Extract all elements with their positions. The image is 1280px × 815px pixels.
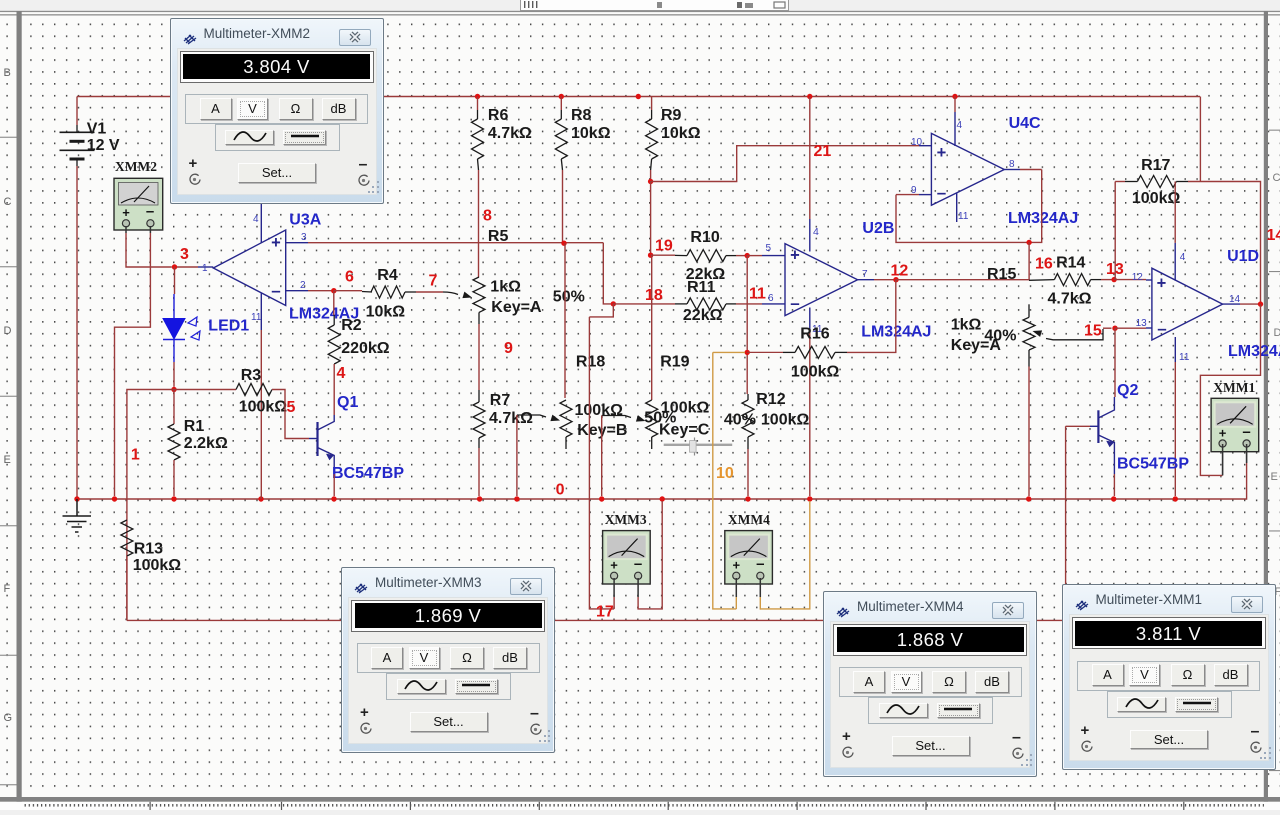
- wire R9 bottom: [650, 170, 652, 182]
- svg-text:100kΩ: 100kΩ: [133, 557, 182, 574]
- svg-text:B: B: [4, 67, 11, 79]
- node 6: [331, 288, 336, 293]
- wire XMM4 minus to ground bus: [760, 501, 810, 609]
- junction top bus / R6: [475, 94, 480, 99]
- svg-text:Q1: Q1: [337, 394, 358, 411]
- pot R19 bottom stub: [651, 437, 653, 449]
- svg-text:R17: R17: [1141, 157, 1170, 174]
- pin stub U3A pin 11: [260, 293, 262, 331]
- junction top bus near R9: [636, 94, 641, 99]
- node 14: [1258, 301, 1263, 306]
- svg-text:100kΩ: 100kΩ: [239, 399, 288, 416]
- svg-text:U2B: U2B: [862, 220, 894, 237]
- battery V1: [60, 125, 95, 166]
- wire U2B pin11 to ground bus: [809, 330, 811, 496]
- resistor R7: [473, 402, 485, 438]
- svg-text:1kΩ: 1kΩ: [490, 279, 521, 296]
- junction ground bus / R15 bottom: [1026, 496, 1031, 501]
- svg-text:C: C: [4, 196, 12, 208]
- svg-text:+: +: [122, 205, 130, 220]
- wire net 12 to R14 row: [896, 279, 1029, 281]
- wire U1D pin11 to ground bus: [1174, 362, 1176, 496]
- resistor R9: [646, 119, 658, 159]
- svg-text:E: E: [4, 454, 11, 466]
- junction ground bus / Q1 emitter: [331, 496, 336, 501]
- transistor Q1: [309, 415, 334, 474]
- junction ground bus / R12: [745, 496, 750, 501]
- svg-text:1: 1: [131, 446, 140, 463]
- wire net to R5/R8 column: [308, 242, 603, 244]
- wire node3 to U3A output: [177, 266, 198, 268]
- svg-text:R11: R11: [687, 279, 716, 296]
- svg-text:6: 6: [768, 293, 774, 304]
- svg-text:R9: R9: [661, 107, 682, 124]
- wire LED1 cathode to node 1: [173, 362, 175, 387]
- wire XMM1 plus terminal stub: [1222, 450, 1224, 475]
- wire U4C pin9: [896, 194, 919, 196]
- wire R12 to ground bus: [747, 449, 749, 496]
- pin stub U3A pin 3: [286, 242, 308, 244]
- pin stub U4C pin 4: [954, 112, 956, 146]
- wire net 17 to XMM3 plus: [589, 317, 614, 609]
- junction top bus / R8: [559, 94, 564, 99]
- resistor R13: [121, 520, 133, 556]
- svg-text:12 V: 12 V: [87, 137, 120, 154]
- svg-text:14: 14: [1267, 227, 1280, 244]
- wiper lead R15: [1046, 329, 1103, 340]
- svg-text:–: –: [1242, 423, 1250, 440]
- wire U2B pin4 riser: [809, 97, 811, 220]
- op-amp U2B: [785, 244, 858, 316]
- wire R8 top lead: [560, 97, 562, 111]
- svg-text:XMM4: XMM4: [728, 512, 770, 527]
- svg-text:11: 11: [749, 286, 766, 303]
- pin stub U3A pin 1: [198, 266, 213, 268]
- svg-text:LED1: LED1: [208, 317, 249, 334]
- svg-text:–: –: [756, 556, 764, 573]
- ground: [63, 499, 92, 532]
- wire U1D output to node 14: [1240, 303, 1261, 305]
- resistor R10: [687, 250, 726, 262]
- wire node21 down to node 19: [650, 182, 652, 256]
- wire net 21 to U4C pin10: [651, 146, 919, 182]
- multimeter icon XMM1: [1211, 398, 1259, 451]
- wire U4C pin4 riser: [954, 97, 956, 113]
- svg-text:7: 7: [429, 272, 438, 289]
- svg-text:11: 11: [251, 312, 262, 323]
- wire XMM4 terminal stubs: [735, 578, 737, 597]
- wire net 9 R5 to R7: [478, 324, 480, 390]
- junction ground bus / R7: [477, 496, 482, 501]
- svg-text:–: –: [937, 183, 946, 202]
- svg-text:U3A: U3A: [289, 212, 321, 229]
- node 21 junction: [648, 179, 653, 184]
- pin stub U2B pin 11: [809, 308, 811, 331]
- instrument panel Multimeter-XMM2: [170, 18, 384, 204]
- instrument panel Multimeter-XMM4: [823, 591, 1037, 777]
- node 13: [1111, 277, 1116, 282]
- multimeter icon XMM4: [725, 531, 773, 584]
- svg-text:1: 1: [202, 263, 208, 274]
- pin stub U1D pin 14: [1223, 303, 1240, 305]
- pin stub U2B pin 6: [762, 303, 785, 305]
- wire XMM3 plus lead: [613, 597, 615, 609]
- wire battery top lead: [76, 97, 78, 126]
- wire R7 to ground bus: [478, 448, 480, 496]
- junction top bus / U4C pin4 riser: [952, 94, 957, 99]
- pin stub U1D pin 11: [1174, 337, 1176, 362]
- svg-text:11: 11: [1179, 352, 1190, 363]
- svg-text:16: 16: [1035, 256, 1053, 273]
- svg-text:15: 15: [1084, 322, 1102, 339]
- svg-text:R3: R3: [241, 367, 262, 384]
- wire node13 to U1D pin12: [1114, 279, 1146, 281]
- wire U1D pin4 riser: [1174, 182, 1176, 243]
- svg-text:LM324AJ: LM324AJ: [1008, 210, 1078, 227]
- wire R19 wiper to ground bus: [601, 416, 603, 497]
- svg-text:R14: R14: [1056, 255, 1085, 272]
- svg-text:R10: R10: [690, 229, 719, 246]
- svg-text:F: F: [4, 583, 11, 595]
- multimeter icon XMM2: [114, 178, 163, 230]
- junction ground bus / U3A pin11: [258, 496, 263, 501]
- wire net 18 drop: [603, 243, 613, 304]
- wire XMM2 plus to node 3: [126, 233, 172, 267]
- junction ground bus / Q2 emitter: [1111, 496, 1116, 501]
- svg-text:10kΩ: 10kΩ: [661, 125, 701, 142]
- junction ground bus / XMM3 minus: [660, 496, 665, 501]
- svg-text:U1D: U1D: [1227, 248, 1259, 265]
- wire R18 wiper to ground bus: [516, 415, 518, 496]
- svg-text:2: 2: [300, 280, 306, 291]
- svg-text:R12: R12: [756, 391, 785, 408]
- wire U3A pin2 to node 6: [308, 290, 334, 292]
- svg-text:9: 9: [504, 340, 513, 357]
- wire node15 to Q2 collector: [1114, 328, 1116, 397]
- potentiometer R18 wiper arrow: [550, 415, 560, 422]
- svg-text:21: 21: [814, 143, 832, 160]
- svg-text:6: 6: [345, 268, 354, 285]
- node 3: [172, 264, 177, 269]
- svg-text:C: C: [1273, 172, 1280, 184]
- wire node6 to R4: [334, 290, 362, 292]
- svg-text:5: 5: [766, 243, 772, 254]
- pot R18 bottom stub: [565, 437, 567, 449]
- svg-text:–: –: [1157, 319, 1166, 338]
- wire node19 to R19 pot: [651, 255, 653, 400]
- op-amp U4C: [931, 133, 1004, 205]
- resistor R17: [1137, 176, 1176, 188]
- wire Q1 emitter to ground bus: [333, 474, 335, 496]
- potentiometer R19 wiper arrow: [636, 415, 646, 422]
- wire XMM2 minus to ground bus: [115, 233, 151, 496]
- svg-text:XMM3: XMM3: [605, 512, 647, 527]
- wire net 8 R6 to R5 pot: [478, 170, 480, 277]
- svg-text:13: 13: [1136, 318, 1148, 329]
- svg-text:BC547BP: BC547BP: [332, 465, 404, 482]
- wire node14 to XMM1 plus: [1200, 304, 1260, 475]
- wire long bottom net to Q2 base riser: [127, 619, 1066, 621]
- wire R15 wiper to node 15: [1103, 327, 1112, 329]
- pin stub U4C pin 8: [1004, 169, 1020, 171]
- svg-text:R2: R2: [341, 317, 362, 334]
- resistor R6: [472, 119, 484, 159]
- wire node3 down to LED1: [174, 267, 176, 294]
- wire U4C feedback loop: [896, 170, 1042, 243]
- svg-text:R8: R8: [571, 107, 592, 124]
- svg-text:100kΩ: 100kΩ: [661, 399, 710, 416]
- junction R16 left / XMM4 plus: [745, 350, 750, 355]
- potentiometer R18 body: [560, 400, 572, 437]
- svg-text:–: –: [271, 281, 280, 300]
- pin stub U4C pin 9: [919, 194, 931, 196]
- svg-text:100kΩ: 100kΩ: [1132, 190, 1181, 207]
- wire XMM2 terminal stubs: [125, 226, 127, 233]
- svg-text:22kΩ: 22kΩ: [683, 307, 723, 324]
- transistor Q2: [1090, 397, 1114, 474]
- wire R17 left lead: [1115, 181, 1125, 183]
- wire top bus right corner drop: [1199, 97, 1201, 182]
- svg-text:19: 19: [655, 237, 673, 254]
- svg-text:100kΩ: 100kΩ: [791, 363, 840, 380]
- svg-text:12: 12: [891, 263, 909, 280]
- wire R6 top lead: [477, 97, 479, 111]
- svg-text:R18: R18: [576, 353, 605, 370]
- wire R9 top lead: [651, 97, 653, 111]
- wire XMM4 plus drop: [713, 352, 737, 609]
- svg-text:+: +: [1219, 425, 1227, 440]
- svg-text:4: 4: [1180, 252, 1186, 263]
- wire R15 bottom to ground bus: [1028, 367, 1030, 497]
- wire net 4 R2 to Q1 collector: [333, 364, 335, 415]
- wire net 7 R4 to R5 wiper: [416, 291, 443, 293]
- wire R8 bottom to node: [562, 170, 564, 243]
- wire net 0 ground bus: [77, 498, 1175, 500]
- svg-text:Q2: Q2: [1117, 382, 1138, 399]
- wire Q2 base riser to bottom net: [1065, 426, 1067, 620]
- LED LED1: [163, 294, 200, 362]
- svg-text:E: E: [1271, 471, 1278, 483]
- svg-text:U4C: U4C: [1009, 115, 1041, 132]
- node 16: [1026, 240, 1031, 245]
- wire node1 to R1: [173, 390, 175, 425]
- wire R17 left to node 13: [1114, 182, 1116, 280]
- wire net 0 to XMM1 minus: [1175, 463, 1246, 499]
- svg-text:R16: R16: [800, 326, 829, 343]
- junction top bus / U2B pin4 riser: [807, 94, 812, 99]
- svg-text:1kΩ: 1kΩ: [951, 316, 982, 333]
- svg-text:D: D: [1274, 327, 1280, 339]
- wire to U2B pin5: [747, 255, 762, 257]
- resistor R11: [687, 298, 726, 310]
- svg-text:11: 11: [958, 211, 969, 222]
- multimeter icon XMM3: [603, 531, 651, 584]
- junction R10 / U2B pin5: [745, 253, 750, 258]
- potentiometer R5 body: [473, 277, 485, 312]
- key slider widget: [664, 438, 733, 456]
- wire XMM4 plus lead: [735, 597, 737, 609]
- svg-text:G: G: [4, 712, 13, 724]
- svg-text:Key=A: Key=A: [951, 337, 1002, 354]
- wiper lead R18: [517, 415, 546, 417]
- junction ground bus / R1: [171, 496, 176, 501]
- pin stub U2B pin 4: [809, 219, 811, 252]
- wire Q2 base: [1066, 425, 1090, 427]
- junction ground bus / R18 wiper: [514, 496, 519, 501]
- svg-text:4.7kΩ: 4.7kΩ: [488, 125, 532, 142]
- svg-text:18: 18: [645, 287, 663, 304]
- wire XMM3 terminal stubs: [613, 578, 615, 597]
- wire XMM4 minus lead: [759, 597, 762, 609]
- svg-text:10kΩ: 10kΩ: [571, 125, 611, 142]
- svg-text:–: –: [146, 203, 154, 220]
- svg-text:100kΩ: 100kΩ: [575, 402, 624, 419]
- svg-text:8: 8: [1009, 159, 1015, 170]
- svg-text:0: 0: [556, 482, 565, 499]
- wire net 2 top horizontal bus: [77, 96, 1200, 98]
- svg-text:14: 14: [1229, 294, 1241, 305]
- svg-text:+: +: [610, 558, 618, 573]
- svg-text:4: 4: [337, 365, 346, 382]
- wire battery negative to ground bus: [76, 166, 78, 499]
- wire XMM1 terminal stubs: [1222, 444, 1224, 452]
- resistor R8: [555, 119, 567, 159]
- potentiometer R5 wiper arrow: [462, 292, 472, 299]
- svg-text:3: 3: [301, 232, 307, 243]
- svg-text:XMM2: XMM2: [115, 159, 157, 174]
- wire node 1 horizontal / R13 riser: [127, 390, 236, 621]
- svg-text:XMM1: XMM1: [1213, 380, 1255, 395]
- svg-text:R5: R5: [488, 228, 509, 245]
- potentiometer R19 body: [646, 400, 658, 437]
- wiper lead R5: [443, 292, 458, 295]
- wire node16 down: [1028, 242, 1030, 280]
- pin stub U3A pin 2: [286, 290, 308, 292]
- svg-text:LM324AJ: LM324AJ: [1228, 343, 1280, 360]
- svg-text:D: D: [4, 325, 12, 337]
- wire R17 right to U1D output: [1188, 182, 1261, 305]
- svg-text:Key=A: Key=A: [491, 299, 542, 316]
- node 1 junction: [171, 387, 176, 392]
- svg-text:Key=C: Key=C: [659, 422, 710, 439]
- wire Q2 emitter to ground bus: [1113, 474, 1115, 496]
- resistor R2: [328, 325, 340, 364]
- resistor R4: [371, 286, 405, 298]
- svg-text:+: +: [1157, 275, 1167, 293]
- svg-text:+: +: [271, 234, 281, 252]
- svg-text:100kΩ: 100kΩ: [761, 411, 810, 428]
- svg-text:–: –: [634, 556, 642, 573]
- junction R8 / U3A pin3 net: [561, 241, 566, 246]
- svg-text:R7: R7: [490, 392, 511, 409]
- svg-text:R15: R15: [987, 266, 1016, 283]
- svg-text:10: 10: [716, 465, 734, 482]
- node 15: [1112, 326, 1117, 331]
- resistor R1: [168, 424, 180, 460]
- pin stub U3A pin 4: [260, 203, 262, 243]
- wire to R18 pot top: [564, 243, 566, 398]
- svg-text:17: 17: [596, 604, 614, 621]
- svg-text:5: 5: [287, 399, 296, 416]
- pin stub U1D pin 13: [1146, 327, 1152, 329]
- wire node5 down to R12: [746, 256, 748, 394]
- svg-text:–: –: [790, 294, 799, 313]
- pot R15 top stub: [1028, 304, 1030, 317]
- wire node19 to R10: [651, 254, 675, 256]
- svg-text:R19: R19: [660, 353, 689, 370]
- instrument panel Multimeter-XMM1: [1062, 584, 1276, 770]
- svg-text:50%: 50%: [553, 288, 585, 305]
- wire node15 to U1D pin13: [1115, 327, 1146, 329]
- svg-text:R1: R1: [184, 418, 205, 435]
- svg-text:4: 4: [813, 226, 819, 238]
- pin stub U1D pin 4: [1174, 243, 1176, 281]
- wire R11 to U2B pin6: [736, 303, 762, 305]
- wire node6 to R2: [333, 291, 335, 315]
- svg-text:12: 12: [1132, 272, 1144, 283]
- svg-text:7: 7: [862, 269, 868, 280]
- pin stub U2B pin 7: [858, 279, 874, 281]
- pin stub U1D pin 12: [1146, 279, 1152, 281]
- pin stub U4C pin 11: [956, 193, 958, 222]
- junction ground bus / U1D pin11: [1173, 496, 1178, 501]
- wire XMM1 minus terminal stub: [1246, 450, 1248, 463]
- instrument panel Multimeter-XMM3: [341, 567, 555, 753]
- svg-text:4: 4: [253, 214, 259, 225]
- svg-text:4.7kΩ: 4.7kΩ: [489, 410, 533, 427]
- svg-text:4: 4: [957, 120, 963, 131]
- resistor R14: [1054, 274, 1090, 286]
- resistor R12: [742, 400, 754, 437]
- junction ground bus / gnd/battery: [74, 496, 79, 501]
- svg-text:10kΩ: 10kΩ: [366, 304, 406, 321]
- svg-text:3: 3: [180, 246, 189, 263]
- wire node18 to R11: [613, 303, 675, 305]
- svg-text:R6: R6: [488, 107, 509, 124]
- svg-text:+: +: [937, 144, 947, 162]
- potentiometer R15 wiper arrow: [1033, 330, 1043, 337]
- wire U4C output: [1020, 169, 1042, 171]
- wire R1 to ground bus: [173, 460, 175, 496]
- node 19: [648, 253, 653, 258]
- junction ground bus / XMM2 minus: [112, 496, 117, 501]
- svg-text:220kΩ: 220kΩ: [341, 340, 390, 357]
- wire net 5 R3 to Q1 base: [272, 390, 309, 439]
- junction ground bus / R19 wiper: [599, 496, 604, 501]
- svg-text:10: 10: [911, 137, 923, 148]
- pin stub U2B pin 5: [762, 255, 785, 257]
- pin stub U4C pin 10: [919, 145, 931, 147]
- wire R13 bottom: [126, 556, 128, 620]
- op-amp U1D: [1152, 268, 1223, 340]
- wire R14 to node 13: [1101, 279, 1114, 281]
- node 18: [611, 301, 616, 306]
- svg-text:R4: R4: [377, 267, 398, 284]
- junction ground bus / U2B pin11/XMM4: [807, 496, 812, 501]
- resistor R16: [795, 346, 835, 358]
- svg-text:R13: R13: [134, 541, 163, 558]
- svg-text:8: 8: [483, 208, 492, 225]
- wire XMM3 minus to ground bus: [638, 501, 662, 609]
- wire R16 right to node 12: [847, 280, 896, 353]
- svg-text:2.2kΩ: 2.2kΩ: [184, 435, 228, 452]
- svg-text:4.7kΩ: 4.7kΩ: [1048, 290, 1092, 307]
- wire U3A pin11 to ground bus: [260, 330, 262, 499]
- svg-text:+: +: [790, 247, 800, 265]
- svg-text:BC547BP: BC547BP: [1117, 455, 1189, 472]
- op-amp U3A: [213, 230, 285, 306]
- potentiometer R15 body: [1023, 317, 1035, 350]
